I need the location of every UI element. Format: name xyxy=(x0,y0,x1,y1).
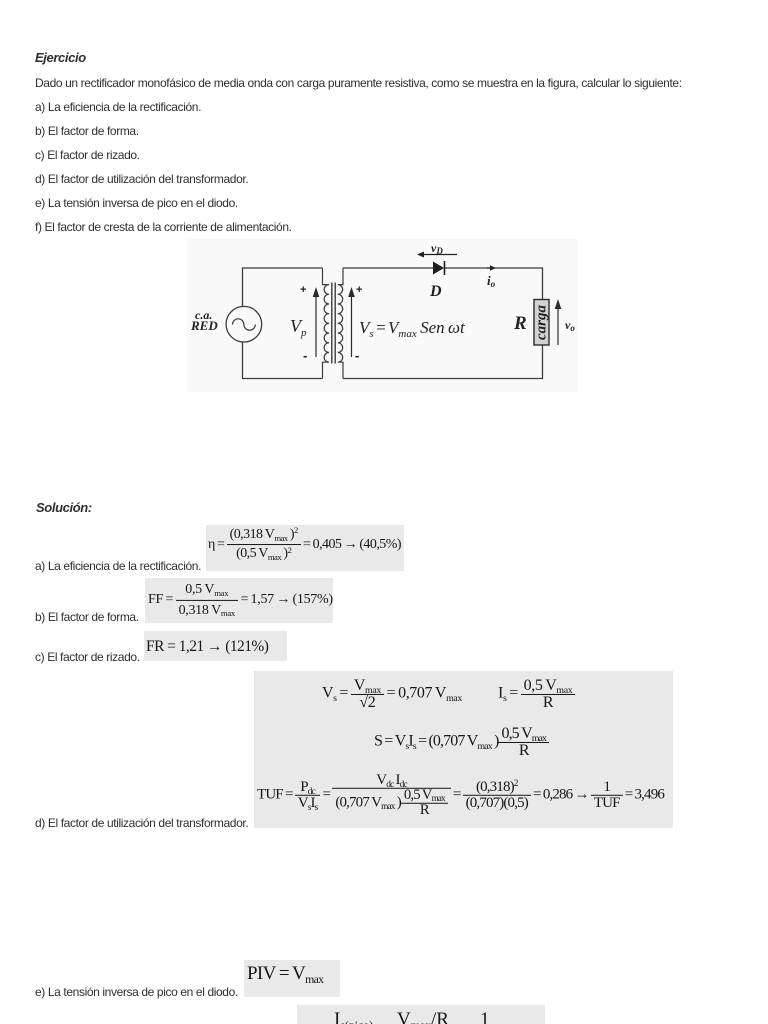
secondary voltage arrow with plus/minus xyxy=(348,284,362,363)
wire: primary loop xyxy=(243,268,323,379)
eq block c: ripple factor xyxy=(144,631,287,661)
eq block f: partial, cut by page bottom xyxy=(297,1005,545,1024)
eq block b: form factor xyxy=(145,578,333,623)
svg-text:+: + xyxy=(356,284,362,296)
transformer T1 primary winding xyxy=(323,268,330,379)
label c.a. RED xyxy=(190,308,218,333)
primary voltage arrow with plus/minus xyxy=(300,284,319,363)
label Vp xyxy=(290,316,307,339)
svg-text:-: - xyxy=(355,348,359,363)
current arrow io xyxy=(487,265,496,289)
label Vs = Vmax Sen wt xyxy=(359,318,466,340)
diode D xyxy=(433,261,445,275)
schematic background xyxy=(187,239,578,392)
output voltage arrow vo xyxy=(555,299,576,345)
svg-text:R: R xyxy=(513,313,527,334)
svg-text:D: D xyxy=(429,283,442,300)
svg-text:RED: RED xyxy=(190,318,218,333)
eq block e: PIV xyxy=(244,960,340,997)
wire: secondary loop xyxy=(343,268,543,379)
label D xyxy=(429,283,442,300)
svg-text:carga: carga xyxy=(534,305,550,340)
ac source c.a. RED xyxy=(226,306,262,342)
resistor R (carga load box) xyxy=(534,300,550,346)
svg-text:-: - xyxy=(303,348,307,363)
svg-text:+: + xyxy=(300,284,306,296)
transformer T1 secondary winding xyxy=(338,268,343,379)
transformer T1 core xyxy=(332,283,335,364)
document body text xyxy=(35,51,86,65)
eq block a: efficiency xyxy=(206,525,404,571)
label R xyxy=(513,313,527,334)
eq block d: TUF xyxy=(254,671,673,828)
label vD with arrow xyxy=(417,241,457,258)
solution section xyxy=(36,501,92,515)
